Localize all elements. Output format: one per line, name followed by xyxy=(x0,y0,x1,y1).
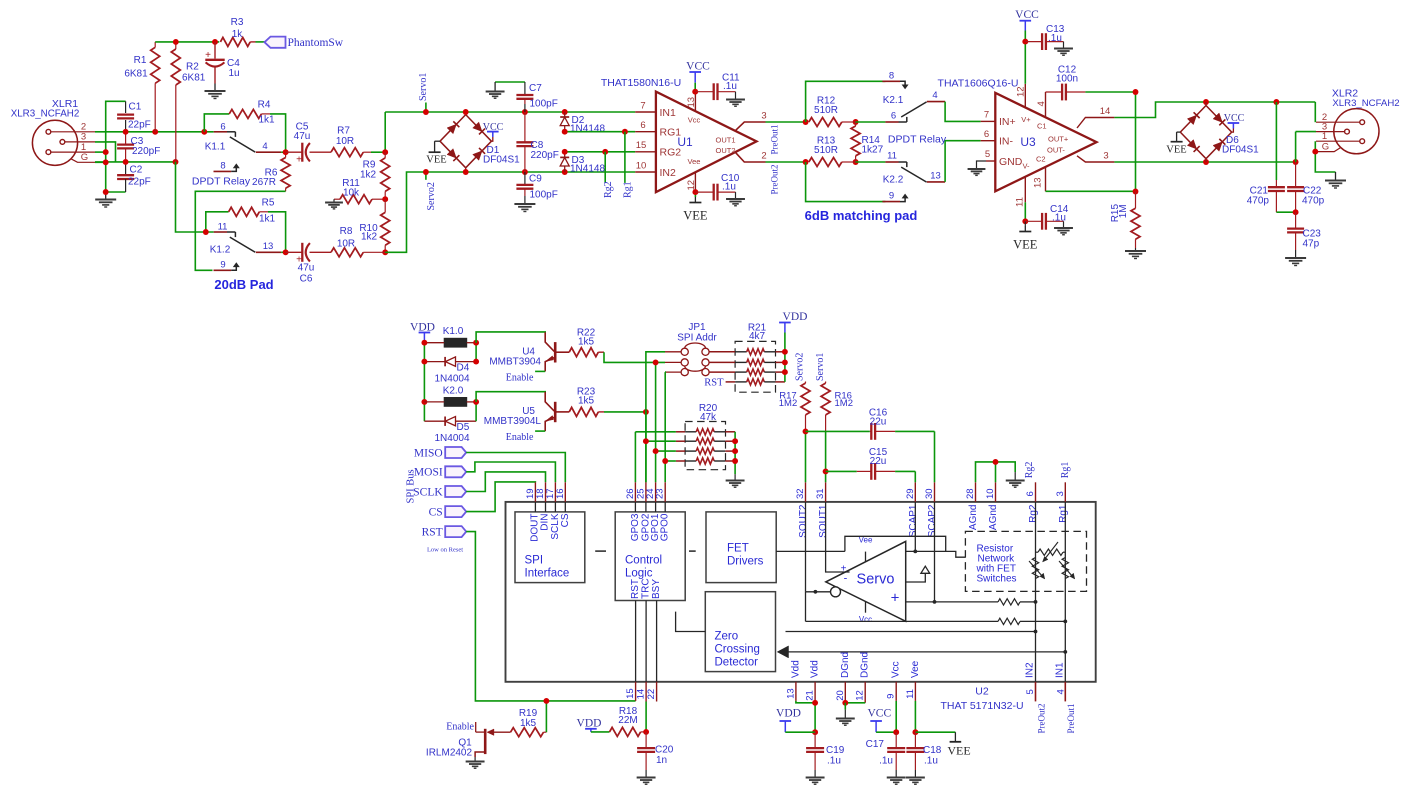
svg-text:3: 3 xyxy=(761,111,766,122)
svg-text:9: 9 xyxy=(886,694,897,699)
wire R20 row3 to pin24 column xyxy=(656,450,676,452)
IC U2 THAT 5171N32-U outer box xyxy=(506,502,1096,682)
svg-text:MMBT3904: MMBT3904 xyxy=(489,357,541,368)
svg-text:470p: 470p xyxy=(1247,196,1270,207)
diode bridge D6 DF04S1 xyxy=(1180,106,1206,133)
svg-text:VEE: VEE xyxy=(683,209,708,223)
capacitor C16 xyxy=(806,430,870,432)
wire K1.0 to U4 collector xyxy=(476,332,545,343)
junction dots XLR1 area xyxy=(123,129,129,135)
resistor R12 xyxy=(809,118,842,127)
svg-text:XLR3_NCFAH2: XLR3_NCFAH2 xyxy=(11,109,80,120)
block SPI Interface xyxy=(515,512,585,583)
svg-text:SOUT1: SOUT1 xyxy=(818,504,829,538)
diode D5 1N4004 xyxy=(424,420,445,422)
capacitor C11 xyxy=(695,91,713,93)
relay coil K2.0 xyxy=(444,398,467,407)
svg-text:IN2: IN2 xyxy=(1025,662,1036,678)
capacitor C23 xyxy=(1295,212,1297,228)
svg-text:2: 2 xyxy=(761,151,766,162)
wire XLR2 pin1/G to ground xyxy=(1315,141,1335,172)
svg-text:22: 22 xyxy=(646,689,657,700)
wire IN1 rail xyxy=(385,111,635,113)
svg-text:+: + xyxy=(205,50,211,61)
capacitor C22 xyxy=(1295,162,1297,187)
pin 29 SCAP1 of U2 xyxy=(914,482,916,502)
wire K2.2 to U3 IN- xyxy=(945,141,981,182)
trim resistor on Rg1 column xyxy=(1062,558,1068,579)
wire TRC pin to R18/C20 xyxy=(645,702,647,732)
pin 12 V+ of U3 xyxy=(1024,84,1026,108)
pin 4 IN1 of U2 xyxy=(1064,682,1066,702)
svg-text:C2: C2 xyxy=(1036,155,1046,164)
wire K2.0/D5 right riser xyxy=(475,402,477,421)
wire OUT+ net to output rail xyxy=(1114,102,1315,118)
svg-text:1: 1 xyxy=(1322,131,1327,142)
resistor R19 xyxy=(511,728,544,737)
wire JP1 row3 to pin23 column xyxy=(665,371,681,373)
resistor R8 xyxy=(331,248,363,257)
pin 11 V- of U3 xyxy=(1024,177,1026,203)
svg-text:11: 11 xyxy=(1015,197,1026,207)
svg-text:RST: RST xyxy=(704,378,724,389)
svg-text:MOSI: MOSI xyxy=(414,467,443,479)
capacitor C15 xyxy=(826,470,857,472)
svg-text:DIN: DIN xyxy=(540,514,551,531)
svg-text:FET: FET xyxy=(727,543,749,555)
wire R20 row2 to pin25 column xyxy=(646,440,676,442)
svg-text:4k7: 4k7 xyxy=(749,331,766,342)
resistor R5 xyxy=(206,212,229,232)
svg-text:-: - xyxy=(844,573,848,585)
ground at R11 xyxy=(333,199,335,202)
pin 5 IN2 of U2 xyxy=(1035,682,1037,702)
svg-text:7: 7 xyxy=(640,101,645,112)
wire R7 junction up to IN1 rail xyxy=(384,112,386,152)
wire pin25 column lower xyxy=(645,412,647,482)
svg-text:CS: CS xyxy=(560,513,571,527)
resistor network with FET switches dashed box xyxy=(965,531,1086,591)
wire zero crossing sense from Rg2 column xyxy=(786,631,1036,633)
wire control logic to zero crossing detector xyxy=(676,612,706,632)
svg-text:VCC: VCC xyxy=(867,708,891,720)
servo Vcc stub xyxy=(865,602,867,613)
svg-text:C9: C9 xyxy=(529,174,542,185)
capacitor C18 xyxy=(914,732,916,748)
power VEE at pin 11 xyxy=(954,732,956,742)
pin 17 SCLK of U2 xyxy=(554,482,556,502)
svg-text:VDD: VDD xyxy=(783,311,808,323)
pin 13 Vdd of U2 xyxy=(795,682,797,701)
svg-text:U3: U3 xyxy=(1020,135,1036,149)
svg-text:11: 11 xyxy=(905,689,916,699)
pin 25 GPO2 of U2 xyxy=(645,482,647,502)
diode bridge D1 DF04S1 xyxy=(440,115,466,142)
svg-text:6K81: 6K81 xyxy=(124,69,148,80)
svg-text:CS: CS xyxy=(429,506,443,518)
svg-text:DGnd: DGnd xyxy=(860,652,871,678)
svg-text:Control: Control xyxy=(625,555,662,567)
power VEE below U1 xyxy=(694,192,696,197)
svg-text:9: 9 xyxy=(889,191,894,202)
svg-text:12: 12 xyxy=(686,180,697,191)
pin 19 DOUT of U2 xyxy=(534,482,536,502)
svg-text:Rg1: Rg1 xyxy=(1058,504,1069,523)
capacitor C3 xyxy=(125,132,127,145)
relay coil K1.0 xyxy=(444,338,467,347)
wire XLR2 pin3 down to OUT- net xyxy=(1296,131,1316,133)
svg-text:IRLM2402: IRLM2402 xyxy=(426,748,473,759)
svg-text:100pF: 100pF xyxy=(530,99,558,110)
svg-text:Switches: Switches xyxy=(977,574,1017,585)
svg-text:PhantomSw: PhantomSw xyxy=(288,37,344,49)
svg-text:SPI: SPI xyxy=(525,555,544,567)
svg-text:9: 9 xyxy=(220,260,225,271)
resistor R13 xyxy=(809,158,842,167)
pin 21 Vdd of U2 xyxy=(814,682,816,703)
svg-text:16: 16 xyxy=(555,488,566,499)
svg-text:13: 13 xyxy=(785,688,796,699)
svg-text:29: 29 xyxy=(905,488,916,499)
wire IN2/Servo2 rail xyxy=(385,172,635,252)
op-amp U3 THAT1606Q16-U xyxy=(995,93,1096,191)
svg-text:D5: D5 xyxy=(457,422,470,433)
resistor R17 xyxy=(805,382,807,384)
resistor inside U2 on Rg2 line xyxy=(998,599,1020,605)
wire PreOut2 to pad xyxy=(766,161,806,163)
resistor R22 xyxy=(557,351,570,353)
svg-text:PreOut2: PreOut2 xyxy=(1036,704,1046,734)
svg-text:VEE: VEE xyxy=(1166,145,1186,156)
svg-text:22u: 22u xyxy=(870,456,887,467)
ground below R15 xyxy=(1135,248,1137,251)
resistor R2 xyxy=(175,42,177,49)
svg-text:C1: C1 xyxy=(129,102,142,113)
hierarchical label MOSI xyxy=(445,466,466,477)
wire RST to pin15 and R19 xyxy=(466,532,635,701)
resistor network R21 4k7 xyxy=(735,341,775,392)
svg-text:3: 3 xyxy=(1103,151,1108,162)
svg-text:Vee: Vee xyxy=(688,157,701,166)
pin 3 OUT- of U3 xyxy=(1077,156,1114,162)
svg-text:3: 3 xyxy=(1055,491,1066,496)
connector XLR1 xyxy=(32,120,77,165)
capacitor C14 xyxy=(1025,220,1042,222)
ground below C9 xyxy=(514,203,535,205)
svg-text:Enable: Enable xyxy=(446,722,474,733)
pin 7 IN+ of U3 xyxy=(981,120,996,122)
svg-text:Vcc: Vcc xyxy=(859,615,872,624)
ground at DGnd xyxy=(844,710,846,719)
hierarchical label RST xyxy=(445,526,466,537)
svg-text:Rg2: Rg2 xyxy=(603,181,614,198)
pin 3 OUT1 of U1 xyxy=(736,122,766,130)
ground loop above C7 xyxy=(495,81,525,83)
wire SCAP1 into box xyxy=(914,502,916,552)
pin 32 SOUT2 of U2 xyxy=(805,482,807,502)
svg-text:+: + xyxy=(296,155,302,166)
trim resistor between Rg2 and Rg1 xyxy=(1038,549,1063,555)
svg-text:12: 12 xyxy=(1016,86,1027,97)
block Control Logic xyxy=(615,512,685,601)
resistor R11 xyxy=(340,195,372,204)
svg-text:Servo2: Servo2 xyxy=(426,182,437,210)
pin 15 RG2 of U1 xyxy=(635,151,656,153)
svg-text:4: 4 xyxy=(1055,689,1066,694)
svg-text:1k27: 1k27 xyxy=(862,145,884,156)
relay contact K2.2 xyxy=(856,161,886,163)
svg-text:Servo: Servo xyxy=(857,572,895,588)
ground at XLR1 filter xyxy=(105,192,107,200)
svg-text:15: 15 xyxy=(636,140,647,151)
svg-text:.1u: .1u xyxy=(722,182,736,193)
wire SOUT1 to servo + input xyxy=(826,502,850,572)
pin 20 DGnd of U2 xyxy=(844,682,846,703)
svg-text:1k1: 1k1 xyxy=(259,214,276,225)
svg-text:C1: C1 xyxy=(1037,122,1047,131)
capacitor C8 xyxy=(524,112,526,142)
svg-text:Vee: Vee xyxy=(910,660,921,678)
svg-text:C7: C7 xyxy=(529,83,542,94)
link dash Control-FET xyxy=(689,550,696,552)
svg-text:DGnd: DGnd xyxy=(840,652,851,678)
wire AGnd pins to ground xyxy=(976,462,1016,482)
svg-text:VDD: VDD xyxy=(776,708,801,720)
svg-text:SOUT2: SOUT2 xyxy=(798,504,809,538)
svg-text:4: 4 xyxy=(262,141,267,152)
svg-text:Enable: Enable xyxy=(506,373,534,384)
resistor R9 xyxy=(384,152,386,158)
wire pin1/G ground ties xyxy=(95,151,106,153)
svg-text:TRC: TRC xyxy=(641,578,652,599)
svg-text:1k2: 1k2 xyxy=(360,170,377,181)
resistor R18 xyxy=(610,727,641,736)
pin 7 IN1 of U1 xyxy=(635,111,656,113)
capacitor C19 xyxy=(814,732,816,748)
ground below C20 xyxy=(645,770,647,778)
svg-text:6K81: 6K81 xyxy=(182,73,206,84)
wire SCAP2 into box xyxy=(934,502,936,602)
capacitor C20 xyxy=(645,732,647,748)
diode D4 1N4004 xyxy=(424,361,445,363)
wire R22 to JP1 row2 xyxy=(604,352,665,362)
svg-text:K2.2: K2.2 xyxy=(883,175,904,186)
svg-text:8: 8 xyxy=(889,70,894,81)
pin 13 C2 of U3 xyxy=(1045,167,1047,191)
svg-text:Crossing: Crossing xyxy=(715,644,760,656)
capacitor C4 polarized xyxy=(214,42,216,59)
wire VDD common of R21 xyxy=(784,333,786,382)
svg-text:1M2: 1M2 xyxy=(779,398,797,409)
svg-text:14: 14 xyxy=(636,689,647,700)
pin 14 TRC of U2 xyxy=(645,601,647,682)
svg-text:Servo1: Servo1 xyxy=(418,73,429,101)
wire MISO to U2 pin16 xyxy=(466,453,565,483)
pin 10 IN2 of U1 xyxy=(635,171,656,173)
svg-text:SCAP1: SCAP1 xyxy=(908,504,919,537)
wire C12 right vertical xyxy=(1135,92,1137,192)
pin 24 GPO1 of U2 xyxy=(655,482,657,502)
resistor R7 xyxy=(331,148,363,157)
servo up-arrow output xyxy=(906,573,926,582)
svg-text:6: 6 xyxy=(891,111,896,122)
svg-text:1M2: 1M2 xyxy=(835,398,853,409)
pin 11 Vee of U2 xyxy=(914,682,916,701)
svg-text:6: 6 xyxy=(220,121,225,132)
wire R20 row1 to pin26 column xyxy=(635,431,676,433)
svg-text:5: 5 xyxy=(985,149,990,160)
ground below Q1 xyxy=(474,757,476,762)
ground at C11 xyxy=(735,92,737,100)
wire K1.0/D4 right riser xyxy=(475,343,477,362)
svg-text:Servo1: Servo1 xyxy=(815,353,826,381)
svg-text:THAT1580N16-U: THAT1580N16-U xyxy=(601,77,681,89)
junction dots IN rails xyxy=(423,109,429,115)
svg-text:K1.1: K1.1 xyxy=(205,142,226,153)
svg-text:R3: R3 xyxy=(231,17,244,28)
svg-text:14: 14 xyxy=(1100,106,1111,117)
ground below C19 xyxy=(814,770,816,778)
resistor R1 xyxy=(154,42,156,47)
pin 18 DIN of U2 xyxy=(545,482,547,502)
svg-text:47p: 47p xyxy=(1303,239,1320,250)
wire phantom rail xyxy=(155,41,219,43)
capacitor C5 polarized xyxy=(286,151,302,153)
svg-text:R5: R5 xyxy=(262,198,275,209)
resistor R14 xyxy=(855,122,857,126)
wire R23 to pin25 column xyxy=(604,411,646,413)
wire K2.0 to U5 collector xyxy=(476,392,545,402)
svg-text:GPO0: GPO0 xyxy=(660,513,671,541)
svg-text:23: 23 xyxy=(655,488,666,499)
global label Servo1 xyxy=(425,103,427,113)
svg-text:BSY: BSY xyxy=(651,579,662,599)
global label Rg2 xyxy=(604,152,606,183)
pin 13 Vcc of U1 xyxy=(694,92,696,111)
svg-text:C6: C6 xyxy=(300,274,313,285)
pin 5 GND of U3 xyxy=(986,160,995,162)
resistor R15 xyxy=(1135,192,1137,209)
svg-text:XLR3_NCFAH2: XLR3_NCFAH2 xyxy=(1332,98,1399,109)
svg-text:1k: 1k xyxy=(232,29,244,40)
svg-text:Vdd: Vdd xyxy=(790,660,801,678)
wire MOSI to U2 pin17 xyxy=(466,462,555,482)
wire Vdd pins 13/21 xyxy=(796,701,815,703)
hierarchical label PhantomSw xyxy=(265,37,286,48)
wire SOUT2 to servo bubble xyxy=(805,502,807,592)
svg-text:28: 28 xyxy=(965,488,976,499)
wire JP1 row1 to pin25 column xyxy=(665,351,681,353)
svg-text:JP1: JP1 xyxy=(688,322,706,333)
svg-text:21: 21 xyxy=(805,690,816,701)
svg-text:1k2: 1k2 xyxy=(361,232,378,243)
svg-text:R8: R8 xyxy=(340,226,353,237)
svg-text:1k5: 1k5 xyxy=(578,396,595,407)
svg-text:10: 10 xyxy=(985,488,996,499)
svg-text:VDD: VDD xyxy=(577,717,602,729)
pin 26 GPO3 of U2 xyxy=(634,482,636,502)
svg-text:12: 12 xyxy=(855,690,866,701)
wire XLR2 pin2 from rail xyxy=(1314,102,1316,122)
pin 4 C1 of U3 xyxy=(1045,92,1047,117)
pin 16 CS of U2 xyxy=(564,482,566,502)
svg-text:47u: 47u xyxy=(298,263,315,274)
svg-text:IN1: IN1 xyxy=(1054,662,1065,678)
svg-text:DF04S1: DF04S1 xyxy=(1222,145,1259,156)
pin 3 Rg1 of U2 xyxy=(1064,482,1066,502)
svg-text:11: 11 xyxy=(887,151,897,162)
wire servo + output to Rg2 trim xyxy=(906,601,998,603)
svg-text:C17: C17 xyxy=(866,739,885,750)
svg-text:47u: 47u xyxy=(294,131,311,142)
svg-text:AGnd: AGnd xyxy=(968,505,979,531)
svg-text:C2: C2 xyxy=(130,165,143,176)
wire R16 to SOUT1 pin xyxy=(825,431,827,482)
relay contact K2.1 xyxy=(856,121,886,123)
servo amplifier inside U2 xyxy=(826,541,906,621)
svg-text:.1u: .1u xyxy=(723,81,737,92)
resistor R10 xyxy=(384,199,386,212)
svg-text:10R: 10R xyxy=(337,239,355,250)
ground below C17 xyxy=(895,770,897,778)
pin 22 BSY of U2 xyxy=(656,601,658,682)
resistor R6 xyxy=(285,152,287,157)
svg-text:13: 13 xyxy=(686,97,697,108)
wire C16 to SCAP2 xyxy=(934,431,936,482)
svg-text:K2.0: K2.0 xyxy=(443,386,464,397)
power VEE at D6 xyxy=(1177,131,1181,133)
svg-text:Logic: Logic xyxy=(625,568,653,580)
svg-text:6dB matching pad: 6dB matching pad xyxy=(805,208,918,223)
svg-text:AGnd: AGnd xyxy=(988,505,999,531)
relay K2.1 NC throw pin 8 xyxy=(806,81,886,122)
diode D2 1N4148 xyxy=(564,112,566,117)
power VEE at D1 xyxy=(435,140,440,142)
svg-text:+: + xyxy=(891,590,900,607)
svg-text:GND: GND xyxy=(999,156,1023,168)
svg-text:PreOut2: PreOut2 xyxy=(769,165,779,195)
svg-text:31: 31 xyxy=(815,488,826,499)
svg-text:GPO3: GPO3 xyxy=(630,513,641,541)
svg-text:OUT+: OUT+ xyxy=(1048,135,1069,144)
wire servo top output xyxy=(906,550,946,552)
svg-text:22M: 22M xyxy=(618,715,637,726)
svg-text:Zero: Zero xyxy=(715,631,739,643)
svg-text:Vcc: Vcc xyxy=(688,116,701,125)
relay contact K1.1 xyxy=(214,131,227,133)
svg-text:13: 13 xyxy=(1032,177,1043,188)
wire SOUT2 to Rg1 trim xyxy=(805,592,807,622)
svg-text:Rg1: Rg1 xyxy=(623,181,634,198)
svg-text:510R: 510R xyxy=(814,145,838,156)
svg-text:1N4004: 1N4004 xyxy=(434,374,469,385)
capacitor C2 xyxy=(125,162,127,175)
wire pin26 column xyxy=(634,432,636,483)
svg-text:100pF: 100pF xyxy=(530,190,558,201)
wire R19 up to RST line xyxy=(545,701,547,732)
ground below C18 xyxy=(914,770,916,778)
svg-text:Rg2: Rg2 xyxy=(1028,504,1039,523)
ground at AGnd xyxy=(1014,472,1016,480)
svg-text:100n: 100n xyxy=(1056,74,1078,85)
svg-text:10k: 10k xyxy=(343,188,360,199)
svg-text:Vdd: Vdd xyxy=(810,660,821,678)
svg-text:22u: 22u xyxy=(870,417,887,428)
relay K2.2 NC throw pin 9 xyxy=(806,162,886,202)
resistor R23 xyxy=(557,411,570,413)
svg-text:C20: C20 xyxy=(655,745,674,756)
svg-text:SPI Bus: SPI Bus xyxy=(406,469,417,503)
